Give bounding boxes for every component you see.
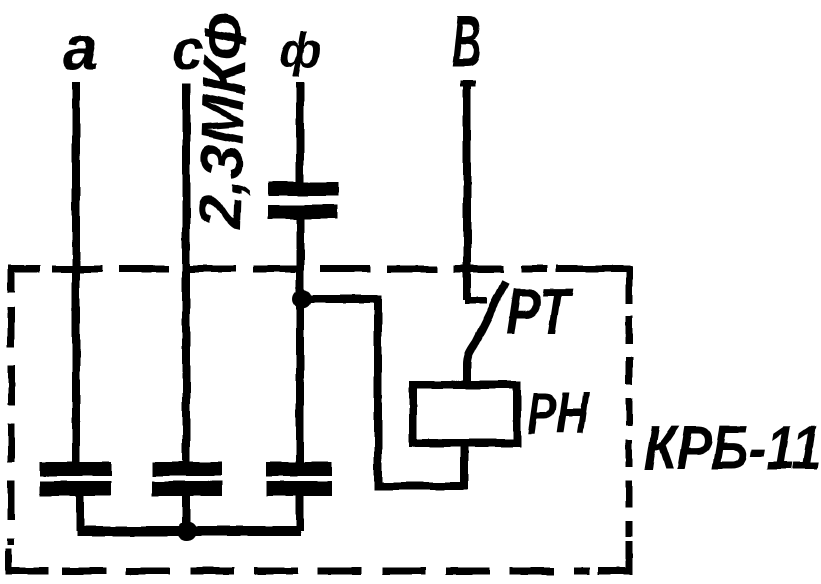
svg-text:ф: ф [279,25,321,78]
svg-text:2,3МКФ: 2,3МКФ [186,12,260,230]
svg-text:а: а [63,14,97,83]
svg-text:РТ: РТ [506,274,574,349]
svg-text:РН: РН [527,380,590,445]
svg-text:КРБ-11: КРБ-11 [644,414,821,483]
svg-text:В: В [452,0,481,83]
